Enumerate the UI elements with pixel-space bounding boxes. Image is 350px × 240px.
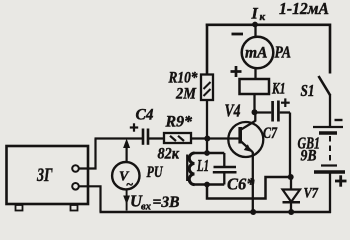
wire tank top bar — [193, 152, 224, 155]
node diode-rail junction — [288, 209, 294, 215]
svg-text:S1: S1 — [301, 81, 315, 100]
svg-text:=3В: =3В — [153, 194, 180, 211]
wire right rail lower — [329, 172, 331, 213]
terminal lower of 3G — [72, 183, 79, 190]
wire collector lead — [254, 112, 256, 121]
svg-text:L1: L1 — [196, 156, 209, 175]
wire C7 down to node X — [289, 113, 291, 178]
wire base node to tank top — [206, 139, 208, 154]
label plus of PA — [231, 66, 242, 77]
resistor R10 — [201, 75, 213, 101]
svg-text:PU: PU — [146, 164, 164, 181]
node emitter-rail junction — [250, 209, 256, 215]
svg-text:V4: V4 — [225, 101, 241, 121]
label GB1 9V — [298, 134, 321, 165]
label minus of battery — [335, 119, 343, 121]
svg-text:V7: V7 — [304, 186, 319, 202]
svg-text:к: к — [260, 11, 266, 23]
wire top rail — [206, 23, 331, 26]
capacitor C4 — [130, 123, 148, 145]
wire base — [206, 137, 240, 139]
node supply junction — [252, 22, 258, 28]
svg-text:R10*: R10* — [168, 70, 199, 87]
battery GB1 — [313, 127, 345, 172]
diode V7 — [283, 177, 301, 212]
label minus of PA — [232, 33, 244, 36]
wire R9 to base node — [191, 137, 206, 139]
svg-text:PA: PA — [274, 43, 291, 62]
wire right rail upper — [329, 24, 332, 74]
node collector junction — [252, 109, 258, 115]
label R10* 2M — [168, 70, 199, 103]
voltmeter PU — [112, 162, 139, 192]
svg-text:9В: 9В — [301, 148, 317, 165]
wire C4 to R9 — [149, 137, 164, 139]
transistor V4 — [228, 121, 263, 157]
svg-text:К1: К1 — [271, 81, 285, 98]
wire emitter lead to ground rail — [252, 152, 254, 212]
wire signal input — [95, 137, 143, 139]
svg-text:C6*: C6* — [227, 175, 255, 194]
wire measurement arrow down — [123, 190, 130, 211]
wire R10 to base node — [206, 100, 208, 139]
svg-text:C7: C7 — [263, 125, 278, 142]
wire tank bottom to node X staircase — [207, 177, 291, 199]
svg-text:~: ~ — [126, 178, 133, 192]
wire K1 to collector node — [253, 94, 255, 112]
wire 3G upper terminal to signal wire — [79, 139, 96, 169]
terminal upper of 3G — [72, 165, 79, 172]
wire measurement arrow up — [123, 139, 130, 163]
inductor L1 — [187, 153, 194, 185]
ammeter PA — [242, 25, 274, 80]
wire left rail upper — [206, 24, 209, 76]
resistor R9 — [164, 133, 191, 143]
svg-text:C4: C4 — [136, 107, 154, 124]
svg-text:I: I — [251, 6, 259, 23]
label plus of battery — [335, 175, 347, 186]
label Uvx=3V — [130, 192, 180, 213]
wire 3G lower terminal to ground rail — [79, 186, 101, 212]
svg-text:mA: mA — [245, 45, 268, 62]
svg-text:R9*: R9* — [165, 114, 193, 131]
node tank bottom — [204, 182, 210, 188]
relay coil K1 — [240, 79, 270, 94]
wire switch to battery — [329, 95, 331, 128]
capacitor C7 — [255, 98, 291, 121]
wire tank bottom bar — [193, 183, 224, 186]
wire bottom rail — [100, 211, 332, 214]
switch S1 — [319, 76, 331, 96]
svg-text:вх: вх — [141, 202, 151, 213]
svg-text:1-12мА: 1-12мА — [279, 0, 329, 18]
node base junction — [204, 136, 210, 142]
generator 3G box — [7, 146, 89, 211]
svg-text:82к: 82к — [158, 146, 180, 163]
capacitor C6 — [213, 153, 237, 185]
svg-text:3Г: 3Г — [36, 165, 53, 186]
node X junction — [288, 174, 294, 180]
svg-text:2М: 2М — [175, 86, 197, 103]
node tank top — [204, 150, 210, 156]
